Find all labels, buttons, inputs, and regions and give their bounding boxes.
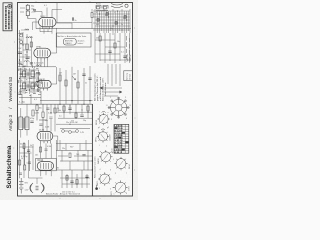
tube V5 rectifier	[37, 162, 53, 171]
capacitor C15 ticks	[30, 121, 33, 122]
V4 electrodes	[41, 133, 51, 144]
resistor R14	[77, 82, 79, 88]
bottom mid extra wires	[56, 140, 93, 156]
scan grain overlay	[0, 0, 138, 200]
resistor R1	[26, 44, 29, 50]
ground bus wire	[18, 103, 93, 105]
wire from C30 to bus	[28, 18, 36, 20]
socket diagram V6 base	[113, 180, 127, 194]
margin dust specks	[13, 1, 135, 199]
capacitor C19 ticks	[80, 115, 83, 116]
tube V1 DK92 (mixer)	[39, 18, 57, 27]
bottom component row	[60, 170, 90, 188]
Fi2 core	[23, 118, 26, 129]
wire from R22	[91, 9, 93, 29]
potentiometer P1 arrow	[72, 76, 76, 80]
bottom-centre connectors	[57, 140, 89, 170]
switch contact dots	[99, 10, 127, 30]
resistor R9	[54, 108, 56, 113]
bus below V2	[18, 66, 56, 68]
coupling cap ticks mid-top	[72, 17, 73, 20]
resistor R25	[39, 147, 41, 152]
V3 anode wire	[51, 67, 57, 84]
left column extra strokes	[20, 30, 32, 57]
V4 anode wire	[53, 136, 58, 151]
oscillator coil symbols left column	[18, 29, 33, 64]
coil L1	[26, 37, 31, 38]
tube V4 DL94 (output)	[37, 131, 53, 140]
coupling stage row components	[56, 104, 92, 124]
capacitor C34 ticks	[85, 176, 88, 177]
resistor R22 vertical on line	[91, 13, 93, 18]
antenna input wires top-left	[20, 8, 62, 18]
capacitor C23 ticks	[88, 78, 91, 79]
battery clip terminal	[95, 187, 98, 190]
resistor R16	[75, 113, 77, 118]
resistor R21	[114, 43, 116, 48]
driver stage cluster left-bottom	[20, 140, 34, 178]
stamp text line 3	[10, 11, 12, 29]
coil pack dense strokes	[19, 64, 42, 95]
core lines Fi1	[27, 72, 28, 89]
grid wire node	[33, 22, 39, 30]
vertical feed wire	[56, 3, 58, 23]
V2 electrodes	[38, 50, 48, 61]
capacitor C8 ticks	[27, 150, 30, 151]
voltage table	[114, 124, 129, 154]
rotary switch wafer wheel	[108, 97, 129, 118]
AF stage vertical wires	[60, 66, 90, 104]
ladder extra verticals	[97, 11, 128, 33]
V2 pin wires to bus	[38, 60, 48, 66]
loudspeaker	[30, 183, 44, 193]
resistor R33	[69, 153, 71, 158]
tube V3 DAF91 (demodulator)	[37, 80, 51, 88]
socket diagram V4 base	[114, 157, 127, 170]
output bus wires	[56, 150, 93, 170]
socket diagram V3 base	[99, 150, 112, 163]
dial cord run diagram	[100, 64, 122, 96]
junction dots row	[63, 112, 88, 125]
socket diagram V1 base	[97, 112, 109, 126]
grid capacitor ticks top	[33, 10, 36, 11]
B- rail thick	[91, 104, 93, 196]
resistor R17	[87, 106, 89, 111]
switch segment rects	[97, 13, 126, 25]
clip wire	[96, 185, 98, 187]
stamp text line 2	[8, 10, 10, 30]
junction dots rails	[92, 150, 93, 171]
stamp emblem circle	[8, 5, 12, 9]
IF transformer Fi2 can	[19, 117, 29, 130]
bottom junction dots	[66, 177, 87, 184]
socket pin dots and keys	[98, 114, 127, 192]
V5 electrodes	[41, 163, 51, 169]
resistor R30	[66, 176, 68, 181]
stamp text line 1	[5, 6, 7, 30]
electrolytic capacitor C30	[26, 4, 29, 19]
service note box	[56, 33, 91, 47]
resistor R8	[32, 110, 34, 116]
band switch wiring ladder	[93, 9, 130, 35]
gear wheel pin text	[107, 97, 131, 121]
coil pack / band switch cluster	[19, 61, 41, 94]
extra feed wires to V4	[47, 104, 55, 131]
resistor R13	[65, 80, 67, 86]
capacitor C3 ticks	[18, 52, 22, 53]
resistor R31	[76, 180, 78, 185]
ladder top extra symbols	[96, 7, 108, 11]
resistor R20	[99, 36, 101, 41]
coil cluster extra hatch	[19, 65, 41, 104]
table dark cells	[114, 127, 128, 150]
capacitor C22 ticks	[82, 74, 85, 75]
wire V2 anode	[51, 28, 57, 53]
resistor R12	[59, 75, 61, 81]
output transformer enclosure box	[36, 158, 57, 170]
extra wires V1 region	[36, 19, 52, 34]
V1 electrodes	[43, 19, 53, 29]
schematic border frame	[18, 3, 133, 197]
socket keyway chords	[101, 116, 123, 190]
tube V2 DF91 (IF amplifier)	[34, 48, 51, 58]
grid coupling parts above V5	[41, 143, 52, 158]
screen wire	[56, 23, 72, 29]
bus line under ladder	[57, 22, 92, 24]
capacitor C29 ticks	[123, 56, 126, 57]
anode bus wire	[36, 28, 131, 30]
capacitor C28 ticks	[108, 51, 111, 52]
inner stamp oval	[63, 38, 76, 45]
heater wiring circles	[60, 129, 90, 134]
ferrite antenna coil pair	[96, 4, 128, 9]
speaker feed wires	[29, 178, 43, 184]
V3 electrodes	[40, 82, 47, 91]
capacitor C33 ticks	[70, 181, 73, 182]
right section vertical wires	[95, 33, 130, 63]
resistor R15	[63, 106, 65, 111]
wafer contact circles	[108, 97, 129, 118]
V5 wires down	[41, 170, 51, 176]
junction dots in cluster	[20, 73, 35, 90]
driver extra parts	[19, 148, 31, 174]
wires from Fi2	[21, 104, 27, 137]
mid band speck labels	[57, 106, 86, 123]
AGC bus wire	[40, 100, 93, 102]
ladder extra labels row	[96, 12, 125, 30]
right strip tick labels	[126, 36, 129, 61]
resistor R5	[23, 144, 25, 149]
capacitor C4 ticks	[26, 57, 30, 58]
junction dots	[19, 44, 28, 60]
warning note box	[124, 71, 133, 81]
trimmer capacitor C2	[20, 41, 23, 44]
battery B1 cells	[19, 178, 23, 194]
trimmer capacitor C1	[20, 34, 23, 37]
capacitor C36 ticks	[82, 155, 85, 156]
right column tiny text	[126, 54, 132, 62]
Fi2 winding hatch	[19, 119, 28, 127]
socket diagram V2 base	[97, 129, 109, 143]
left column wires	[20, 30, 32, 67]
padder capacitor ticks	[18, 73, 39, 95]
capacitor C18 ticks	[68, 108, 71, 109]
socket surround text specks	[98, 112, 127, 196]
IF transformer Fi1 windings	[23, 71, 35, 89]
coil pack speck dots	[19, 64, 41, 96]
mid column extra components	[36, 104, 50, 131]
stamp box (Schaltungsdienst Lange Berlin)	[3, 3, 12, 31]
socket diagram V5 base	[98, 172, 111, 185]
bus junction dots	[59, 100, 90, 105]
